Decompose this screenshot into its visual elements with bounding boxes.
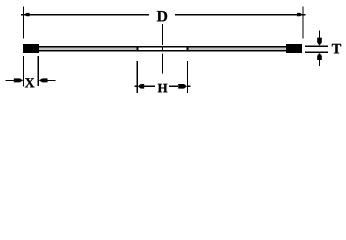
dimension H right line segment (169, 86, 178, 87)
dimension H right extension line (187, 61, 188, 93)
dimension X left arrow shaft (6, 80, 14, 81)
dimension H left arrowhead (138, 84, 144, 89)
abrasive block left (23, 44, 39, 53)
dimension T lower arrowhead (317, 53, 322, 60)
wheel core right gray (189, 47, 286, 50)
dimension D left extension line (23, 6, 24, 38)
dimension H left tail (135, 86, 137, 87)
centerline upper segment (162, 24, 163, 45)
abrasive block right (286, 44, 302, 53)
dimension X left arrowhead (14, 78, 23, 82)
wheel top outline (23, 46, 302, 47)
dimension X right arrowhead (39, 78, 48, 82)
hole right wall (186, 46, 188, 51)
dimension H left line segment (144, 86, 155, 87)
dimension T upper arrow shaft (319, 30, 320, 38)
dimension X right extension line (38, 56, 39, 86)
dimension T lower arrow shaft (319, 60, 320, 67)
centerline tick crossing hole (162, 47, 163, 50)
label H (158, 84, 168, 92)
dimension H right tail (188, 86, 191, 87)
hole left wall (136, 46, 138, 51)
dimension H right arrowhead (178, 84, 187, 89)
dimension D right arrowhead (297, 13, 303, 16)
centerline lower segment (162, 54, 163, 74)
label X (25, 78, 35, 87)
wheel core left gray (39, 47, 136, 50)
dimension T top extension line (305, 46, 328, 47)
label D (157, 11, 167, 21)
dimension D right extension line (302, 6, 303, 38)
wheel bottom outline (23, 50, 302, 51)
dimension D left arrowhead (24, 13, 30, 16)
dimension H left extension line (137, 61, 138, 93)
dimension T bottom extension line (305, 52, 328, 53)
dimension T upper arrowhead (317, 38, 322, 46)
dimension D line left segment with tail (21, 14, 149, 15)
label T (332, 44, 341, 54)
dimension D line right segment with tail (175, 14, 305, 15)
dimension X left extension line (23, 56, 24, 87)
dimension X right arrow shaft (47, 80, 55, 81)
